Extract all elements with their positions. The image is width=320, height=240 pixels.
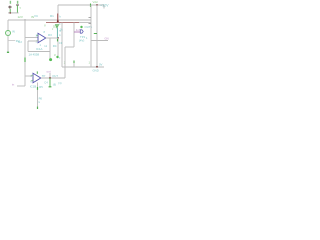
junction x50 out wire [49, 77, 51, 79]
green dot above glyph [80, 26, 82, 28]
blue port glyph [80, 30, 83, 33]
svg-text:R6: R6 [39, 96, 43, 100]
wire bend y=47 [65, 46, 74, 48]
svg-text:R3: R3 [48, 33, 52, 37]
svg-text:C4: C4 [44, 80, 48, 84]
svg-text:Vdd: Vdd [93, 0, 98, 4]
svg-text:k1: k1 [45, 45, 48, 48]
green tick x74 stub [73, 61, 75, 64]
wire below port x=8 [7, 36, 9, 53]
pin tick in+ B [31, 74, 33, 76]
wire right y=40.5 [91, 40, 108, 42]
pin ticks x=91 left [89, 18, 92, 24]
port circle [6, 31, 11, 36]
svg-text:g: g [44, 23, 46, 27]
svg-text:in: in [12, 82, 15, 86]
wire x=58 below junction [57, 38, 59, 56]
wire left stub y=40.5 [8, 40, 15, 42]
wire opamp1 input y=37.5 [25, 37, 38, 39]
op-amp IC1A [38, 33, 46, 42]
svg-text:OUT: OUT [52, 74, 58, 78]
wire x=65 lower drop [64, 67, 66, 78]
junction out node [57, 37, 59, 39]
green tick on bottom wire [37, 87, 39, 90]
svg-text:0V: 0V [99, 62, 103, 66]
pin stub x74 on bus [73, 61, 75, 67]
wire left bend y=86 [17, 85, 25, 87]
green pin segment on x=25 [24, 58, 26, 63]
wire x=74 upper [73, 22, 75, 47]
capacitor C2 label [17, 1, 18, 4]
svg-text:+12V: +12V [100, 3, 109, 7]
wire opamp2 bottom x=37.5 [37, 83, 39, 110]
green drop x50 [49, 78, 51, 86]
wire opamp2 out y=78 [41, 77, 65, 79]
svg-text:u: u [59, 57, 61, 60]
pin tick in+ [36, 34, 38, 36]
wire opamp2 in y=76 [25, 75, 33, 77]
svg-text:1k: 1k [60, 27, 63, 31]
svg-text:(6): (6) [53, 82, 56, 86]
svg-text:GND: GND [93, 68, 99, 72]
svg-text:k: k [60, 15, 62, 19]
svg-text:1A 4558: 1A 4558 [29, 53, 40, 57]
wire x=25 vertical long [24, 20, 26, 86]
zener body green [55, 25, 58, 28]
wire x=50 riser [49, 73, 51, 78]
svg-text:R5: R5 [39, 85, 43, 89]
svg-text:IN: IN [12, 29, 15, 33]
pin end green x=8 [7, 51, 9, 53]
wire feedback left [28, 41, 38, 52]
junction x=25 rail [24, 19, 25, 20]
wire x=65 down [64, 47, 66, 67]
svg-text:R4: R4 [53, 44, 57, 48]
purple branch y=32 [74, 31, 80, 33]
wire left drop x=8 [7, 20, 9, 30]
wire feedback bottom [28, 51, 50, 53]
svg-text:R1: R1 [50, 14, 54, 18]
resistor dark horizontal y=22.4 [46, 21, 79, 23]
svg-text:u: u [20, 5, 22, 9]
connector line x=91 [90, 5, 92, 67]
capacitor C1 label [10, 1, 11, 4]
green tick top B [36, 71, 38, 73]
power stub x=104 [103, 5, 105, 9]
green ground tick x50 [49, 86, 52, 88]
svg-text:1: 1 [89, 60, 91, 64]
pin tick in- B [31, 80, 33, 82]
wire out node drop x=50 [49, 38, 51, 58]
zener wire teal [56, 28, 58, 38]
wire opamp1 out [46, 37, 58, 39]
wire x=62 vertical [61, 22, 63, 67]
junction cap rail [9, 12, 11, 14]
svg-text:(1): (1) [58, 81, 61, 85]
svg-text:(4V): (4V) [79, 39, 84, 43]
wire cap rail y=13 [8, 12, 19, 14]
resistor dark vertical x=58 [57, 14, 59, 23]
svg-text:C3: C3 [59, 41, 63, 45]
green port blob x=50 [49, 58, 52, 61]
svg-text:k: k [59, 33, 61, 37]
capacitor C2 plate [16, 4, 19, 6]
svg-text:VC: VC [34, 14, 39, 18]
svg-text:GN: GN [105, 37, 109, 41]
pin tick in- [36, 40, 38, 42]
connector line x=97 [96, 5, 98, 67]
svg-text:g: g [54, 53, 56, 56]
svg-text:z: z [52, 28, 54, 31]
wire main rail y=20 [8, 19, 91, 21]
bus y=67 [62, 66, 104, 68]
wire top rail y=5 [58, 4, 104, 6]
capacitor C1 pin [9, 9, 11, 13]
junction x97 bus [96, 66, 98, 68]
pin tick x=91 top [90, 4, 92, 8]
svg-text:IC1B: IC1B [30, 85, 36, 89]
svg-text:IC1A: IC1A [36, 47, 42, 51]
green end bottom [37, 107, 39, 109]
op-amp IC1B [33, 73, 41, 82]
svg-text:R2: R2 [18, 40, 22, 44]
green tick x58 [57, 39, 59, 41]
wire x=58 upper segment [57, 5, 59, 14]
svg-text:TP: TP [42, 74, 46, 78]
wire second rail y=22.4 gray part [79, 21, 91, 23]
junction node x=97 y=5 [96, 4, 98, 6]
green tick x97 mid [94, 33, 97, 35]
svg-text:1: 1 [86, 36, 88, 40]
svg-text:12V: 12V [18, 15, 23, 19]
capacitor C2 pin [16, 6, 18, 13]
svg-text:k: k [39, 100, 41, 104]
capacitor C1 plus cross [8, 6, 11, 9]
junction resistor corner [57, 20, 59, 22]
svg-text:8: 8 [44, 30, 46, 34]
green blob x58 bottom [56, 56, 58, 58]
